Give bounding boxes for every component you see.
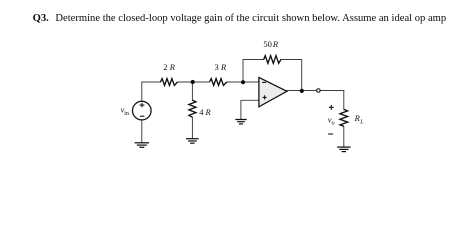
svg-text:R: R [220, 62, 227, 72]
output node junction dot [300, 89, 304, 93]
wire RL top lead [343, 91, 345, 110]
resistor 4R zigzag [189, 100, 196, 117]
wire feedback left vertical [243, 60, 264, 83]
voltage source Vin circle [133, 101, 152, 120]
wire op-amp noninverting input [241, 100, 259, 119]
output open terminal [317, 89, 321, 93]
wire op-amp output [287, 90, 317, 92]
wire between 3R and node B, to op-amp inverting input [227, 81, 259, 83]
ground (source) [135, 143, 149, 148]
wire RL bottom lead [343, 126, 345, 146]
op-amp U1 triangle [259, 77, 287, 106]
ground (RL) [337, 147, 350, 152]
resistor RL zigzag [340, 109, 348, 126]
wire 4R top lead [191, 82, 193, 100]
svg-text:R: R [169, 62, 176, 72]
svg-text:in: in [124, 111, 129, 117]
wire 4R bottom lead [191, 117, 193, 138]
label plus (vo polarity) [329, 105, 334, 110]
ground (4R) [186, 139, 199, 144]
wire between 2R and node A [178, 81, 210, 83]
svg-text:4: 4 [199, 107, 204, 117]
svg-text:3: 3 [215, 62, 219, 72]
op-amp plus sign [263, 95, 267, 99]
wire feedback right vertical [281, 60, 302, 91]
svg-text:L: L [359, 119, 364, 125]
svg-text:Q3. Determine the closed-loop: Q3. Determine the closed-loop voltage ga… [33, 13, 447, 24]
node B junction dot [241, 80, 245, 84]
ground (op-amp +) [235, 120, 246, 124]
wire output terminal to load [320, 90, 344, 92]
voltage source plus sign [140, 103, 145, 107]
svg-text:R: R [205, 107, 212, 117]
label minus (vo polarity) [328, 133, 333, 135]
svg-text:R: R [272, 39, 279, 49]
voltage source minus sign [140, 115, 144, 117]
node A junction dot [191, 80, 195, 84]
svg-text:2: 2 [163, 62, 167, 72]
op-amp minus sign [262, 81, 266, 83]
resistor 50R zigzag [264, 56, 281, 64]
wire top rail left segment [142, 81, 161, 83]
svg-text:50: 50 [263, 39, 272, 49]
resistor 2R zigzag [160, 79, 177, 86]
svg-text:o: o [332, 121, 335, 127]
wire source top lead [141, 82, 143, 101]
wire source bottom lead [141, 120, 143, 143]
resistor 3R zigzag [210, 79, 227, 86]
